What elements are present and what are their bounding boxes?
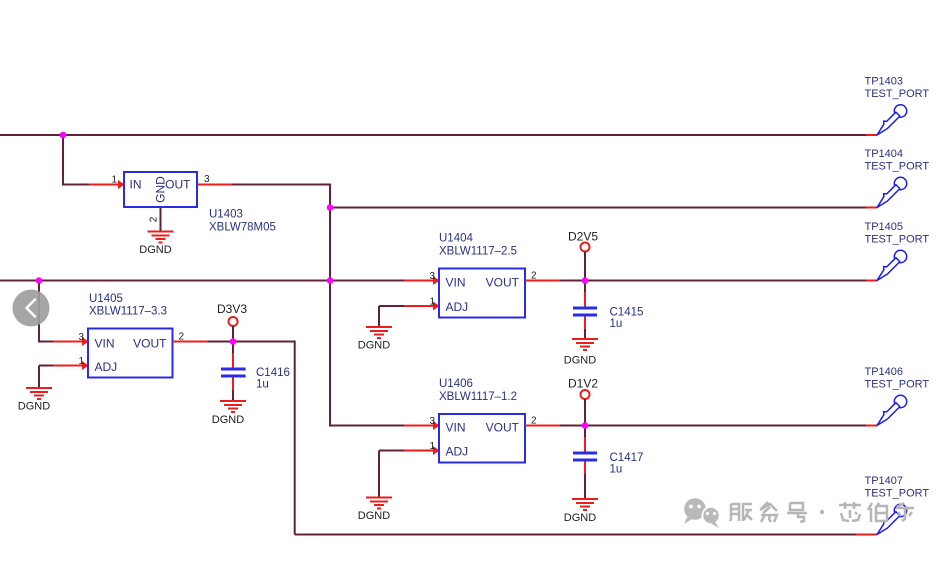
svg-text:1u: 1u (610, 318, 623, 330)
ground DGND of U1406 ADJ (358, 498, 392, 523)
svg-text:VOUT: VOUT (486, 420, 520, 434)
pin 3 U1403 OUT red stub (197, 184, 232, 186)
svg-text:3: 3 (78, 332, 84, 343)
pin 2 U1406 VOUT red stub (525, 425, 560, 427)
svg-text:C1417: C1417 (610, 452, 644, 464)
node junction 233,341.5 (230, 338, 237, 345)
svg-text:1: 1 (429, 441, 435, 452)
power port D1V2 (568, 377, 598, 400)
svg-text:D3V3: D3V3 (217, 302, 247, 316)
op-amp U1405 regulator box (88, 329, 173, 378)
svg-text:VIN: VIN (95, 336, 115, 350)
power port D2V5 (568, 230, 598, 252)
wire net bottom to TP1407 (295, 534, 856, 536)
svg-text:TP1406: TP1406 (865, 366, 904, 378)
op-amp U1404 regulator box (439, 269, 525, 318)
svg-text:TEST_PORT: TEST_PORT (865, 88, 930, 100)
node junction 39,280.5 (36, 277, 43, 284)
nav arrow overlay (13, 290, 50, 327)
svg-text:1: 1 (78, 356, 84, 367)
wire net D3V3 (208, 342, 295, 535)
wire pin stub TP1405 (866, 280, 877, 282)
wire U1405 ADJ drop (38, 366, 40, 388)
test point TP1405 (865, 221, 930, 282)
test point TP1407 (865, 475, 930, 536)
ground DGND of C1417 (564, 499, 598, 524)
pin 1 U1405 ADJ wire (39, 365, 53, 367)
svg-text:2: 2 (531, 416, 537, 427)
node junction 330,207.5 (327, 204, 334, 211)
pin 3 U1404 VIN red stub (404, 280, 439, 282)
pin 1 U1403 red stub (89, 184, 124, 186)
pin 2 U1403 GND stub (160, 207, 162, 231)
test point TP1406 (865, 366, 930, 427)
svg-text:U1403: U1403 (209, 209, 243, 221)
pin 2 U1404 VOUT red stub (525, 280, 560, 282)
svg-text:C1415: C1415 (610, 307, 644, 319)
wire D1V2 stem (584, 399, 586, 426)
svg-text:OUT: OUT (165, 178, 191, 192)
capacitor C1415 (573, 281, 643, 339)
wire U1403 OUT to vertical (232, 185, 330, 208)
svg-text:ADJ: ADJ (446, 445, 469, 459)
capacitor C1417 (573, 426, 643, 499)
node junction 330,280.5 (327, 277, 334, 284)
svg-text:2: 2 (149, 216, 160, 222)
wire net 5V to TP1404 (330, 207, 866, 209)
wire net D1V2 to TP1406 (560, 425, 866, 427)
svg-text:GND: GND (154, 176, 168, 203)
svg-text:3: 3 (429, 416, 435, 427)
svg-text:3: 3 (429, 271, 435, 282)
ground DGND of C1416 (212, 401, 246, 426)
watermark text 服务号 · 芯伯乐 (730, 502, 914, 522)
op-amp U1403 regulator box (124, 172, 197, 207)
svg-text:1u: 1u (610, 464, 623, 476)
svg-text:3: 3 (204, 174, 210, 185)
svg-text:DGND: DGND (139, 244, 171, 256)
wire pin stub TP1407 (856, 534, 877, 536)
svg-text:TP1405: TP1405 (865, 221, 904, 233)
svg-text:TEST_PORT: TEST_PORT (865, 160, 930, 172)
svg-text:U1404: U1404 (439, 232, 473, 244)
svg-text:2: 2 (179, 332, 185, 343)
svg-text:VOUT: VOUT (486, 275, 520, 289)
op-amp U1406 regulator box (439, 414, 525, 463)
svg-text:U1405: U1405 (89, 293, 123, 305)
ground DGND of C1415 (564, 339, 598, 367)
wire pin stub TP1406 (866, 425, 877, 427)
svg-text:XBLW78M05: XBLW78M05 (209, 222, 276, 234)
power port D3V3 (217, 302, 247, 326)
svg-text:D1V2: D1V2 (568, 377, 598, 391)
svg-text:IN: IN (130, 178, 142, 192)
svg-text:DGND: DGND (358, 510, 390, 522)
svg-text:TEST_PORT: TEST_PORT (865, 378, 930, 390)
wire pin stub TP1404 (866, 207, 877, 209)
node junction 63,135 (60, 132, 67, 139)
ground DGND of U1405 ADJ (18, 388, 52, 413)
svg-text:TEST_PORT: TEST_PORT (865, 233, 930, 245)
svg-text:XBLW1117–3.3: XBLW1117–3.3 (89, 306, 167, 318)
svg-text:1: 1 (429, 297, 435, 308)
svg-text:TEST_PORT: TEST_PORT (865, 487, 930, 499)
wire net VIN top horizontal to TP1403 (0, 134, 866, 136)
pin 1 U1404 ADJ wire (379, 305, 404, 307)
pin 3 U1406 VIN red stub (404, 425, 439, 427)
svg-text:ADJ: ADJ (446, 300, 469, 314)
svg-text:TP1404: TP1404 (865, 148, 904, 160)
wire D2V5 stem (584, 252, 586, 281)
svg-text:VOUT: VOUT (133, 336, 167, 350)
svg-text:C1416: C1416 (256, 367, 290, 379)
test point TP1403 (865, 76, 930, 137)
svg-text:ADJ: ADJ (95, 360, 118, 374)
wire vertical 330 down (329, 208, 331, 281)
test point TP1404 (865, 148, 930, 209)
wire U1406 ADJ drop (378, 451, 380, 498)
svg-text:DGND: DGND (564, 512, 596, 524)
wire net input horizontal row 280.5 (0, 280, 404, 282)
svg-text:TP1403: TP1403 (865, 76, 904, 88)
wire vertical drop to U1403 IN (63, 135, 89, 185)
svg-text:1: 1 (111, 175, 117, 186)
svg-text:XBLW1117–2.5: XBLW1117–2.5 (439, 246, 517, 258)
ground DGND of U1404 ADJ (358, 327, 392, 352)
watermark wechat icon (684, 498, 720, 528)
svg-text:VIN: VIN (446, 275, 466, 289)
svg-text:D2V5: D2V5 (568, 230, 598, 244)
svg-text:2: 2 (531, 271, 537, 282)
wire net D2V5 to TP1405 (560, 280, 866, 282)
wire U1405 VIN drop (39, 281, 53, 342)
svg-text:XBLW1117–1.2: XBLW1117–1.2 (439, 391, 517, 403)
wire vertical 330 down to U1406 row (330, 281, 404, 426)
pin 3 U1405 VIN red stub (53, 341, 88, 343)
svg-text:DGND: DGND (212, 414, 244, 426)
pin 1 U1406 ADJ wire (379, 450, 404, 452)
svg-text:DGND: DGND (358, 340, 390, 352)
svg-text:DGND: DGND (18, 401, 50, 413)
svg-text:U1406: U1406 (439, 378, 473, 390)
wire D3V3 stem (232, 326, 234, 342)
svg-text:TP1407: TP1407 (865, 475, 904, 487)
svg-text:DGND: DGND (564, 355, 596, 367)
wire pin stub TP1403 (866, 134, 877, 136)
wire U1404 ADJ drop (378, 306, 380, 327)
svg-text:VIN: VIN (446, 420, 466, 434)
svg-text:1u: 1u (256, 379, 269, 391)
capacitor C1416 (221, 342, 290, 401)
node junction 585,425.5 (582, 422, 589, 429)
ground DGND of U1403 (139, 232, 173, 257)
node junction 585,280.5 (582, 277, 589, 284)
pin 2 U1405 VOUT red stub (173, 341, 208, 343)
